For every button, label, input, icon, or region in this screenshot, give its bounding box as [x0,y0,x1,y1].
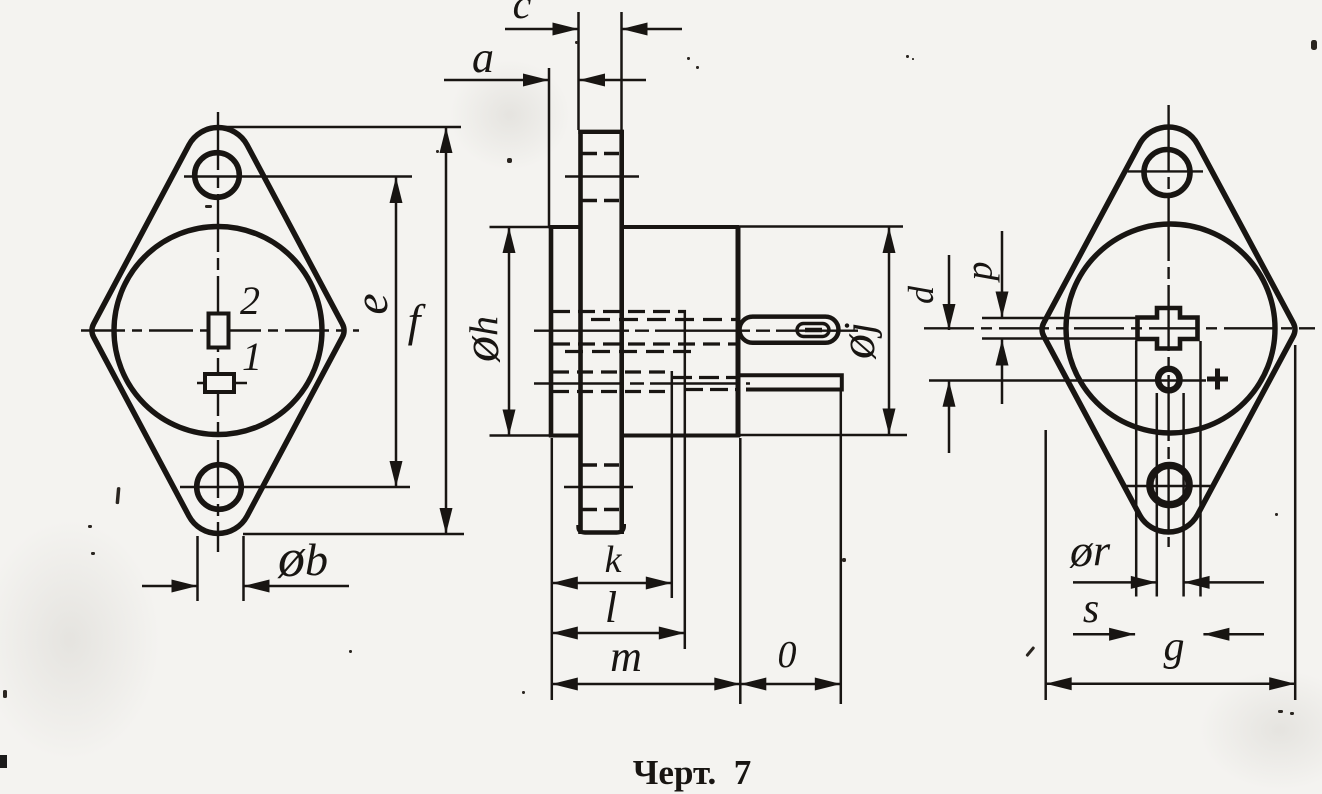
dimension m label [610,632,642,681]
caption [633,753,752,792]
svg-text:øb: øb [277,528,328,588]
side view can right edge [736,226,741,437]
plus mark [1207,369,1228,390]
dimension f bottom extension line [243,533,464,536]
svg-text:øj: øj [829,322,885,360]
dimension d line [943,255,956,453]
flange top hole hidden line upper [582,152,619,155]
left view top mounting hole [195,153,240,198]
upper lead inner bar [805,328,822,333]
side view header top edge [549,225,580,229]
dimension Oh line [503,227,516,436]
svg-text:øh: øh [453,316,510,363]
dimension Or left extension line [1156,393,1159,597]
pin 2 rectangle [209,314,229,348]
upper pin hidden line B [591,318,737,321]
right view bottom hole centerline [1125,485,1214,487]
side view header bottom edge [549,434,580,438]
upper pin axis centerline [534,330,858,332]
flange top hole centerline [565,175,639,177]
dimension c left extension line [577,12,580,130]
svg-text:Черт. 7: Черт. 7 [633,753,752,792]
svg-text:a: a [472,33,494,82]
svg-text:e: e [345,293,398,314]
dimension Ob label [277,528,328,588]
side view can bottom edge [622,434,740,438]
dimension s label [1083,586,1099,632]
dimension l label [605,583,617,632]
upper pin hidden line D [553,342,737,345]
lower lead outline [740,375,842,389]
svg-text:m: m [610,632,642,681]
svg-text:0: 0 [778,634,797,676]
dimension g line [1046,677,1296,690]
dimension l line [552,627,685,640]
dimensions k l m left extension line [551,438,554,700]
right view can circle [1066,224,1275,433]
lower pin hole hidden line F [553,370,671,373]
dimension Ob line [142,580,349,593]
dimension p top extension line [982,317,1138,320]
dimension a line [444,74,646,87]
side view flange top edge [578,130,624,134]
dimension Or line [1073,576,1264,589]
dimension s right extension line [1199,341,1202,597]
svg-text:c: c [513,0,532,28]
dimension l right extension line [684,310,687,649]
left view flange outline [92,128,344,534]
dimension f line [440,127,453,534]
lower pin hidden line H [685,388,736,391]
dimension Oh label [453,316,510,363]
dimension a left extension line [548,68,551,227]
svg-text:1: 1 [242,334,262,379]
dimension p bottom extension line [982,337,1138,340]
left view vertical centerline [217,112,219,552]
svg-text:2: 2 [240,278,260,323]
dimension m line [552,678,741,691]
svg-text:d: d [901,285,941,304]
right view top hole centerline [1128,170,1203,172]
side view top edge thin extension [490,226,550,229]
side view flange right edge [619,130,624,534]
flange bottom hole hidden line lower [582,508,619,511]
dimension e label [345,293,398,314]
dimension Oj line [883,227,896,435]
svg-text:k: k [605,539,623,581]
flange top hole hidden line lower [582,199,619,202]
right view vertical centerline [1167,105,1169,547]
dimension e bottom extension line [180,486,410,489]
dimension a label [472,33,494,82]
lower pin hidden line F2 [672,376,737,379]
svg-text:l: l [605,583,617,632]
dimension p line [996,231,1009,404]
dimension Or right extension line [1182,393,1185,597]
lower pin hole hidden line I [553,390,671,393]
upper lead outline [740,317,839,343]
dimension s left extension line [1135,341,1138,597]
svg-text:s: s [1083,586,1099,632]
dimension f top extension line [216,126,461,129]
dimension Ob right extension line [242,536,245,601]
flange bottom hole centerline [564,486,633,488]
left edge scan mark [0,755,7,768]
dimension k right extension line [671,371,674,598]
left view bottom mounting hole [197,465,242,510]
dimension g left extension line [1044,430,1047,700]
dimension k label [605,539,623,581]
side view can top edge [622,225,739,229]
dimension m right extension line [739,438,742,704]
dimension Or label [1069,525,1111,576]
dimension 0 right extension line [840,391,843,704]
side view bottom edge thin extension [490,434,550,437]
dimension p label [959,262,1001,284]
pin 1 label [242,334,262,379]
left view can circle [114,227,322,435]
dimension Ob left extension line [196,536,199,601]
side view top extension to Oj [739,225,903,228]
emitter pin circle [1158,369,1180,391]
dimension e line [390,177,403,487]
dimension c line [505,23,682,36]
side view header left edge [549,227,554,436]
dimension g label [1164,624,1185,670]
side view flange left edge [578,130,583,534]
right view flange outline [1042,127,1295,532]
svg-text:g: g [1164,624,1185,670]
upper pin hole hidden line A [553,310,686,313]
right view top mounting hole [1144,150,1190,196]
dimension Oj label [829,322,885,360]
side view flange bottom edge [579,524,624,533]
pin 2 label [240,278,260,323]
dimension 0 line [740,678,841,691]
svg-text:p: p [959,262,1001,284]
dimension k line [552,577,672,590]
upper pin hole hidden line E [565,350,692,353]
dimension g right extension line [1294,345,1297,700]
dimension c label [513,0,532,28]
upper lead flat inner outline [797,324,829,337]
dimension d lower extension line [929,379,1206,382]
pin 1 centerline [197,382,247,385]
lower pin axis centerline [534,382,750,384]
side view bottom extension to Oj [740,434,907,437]
svg-text:ør: ør [1069,525,1111,576]
dimension c right extension line [620,12,623,130]
dimension f label [408,295,427,346]
key boss outline [1138,308,1198,349]
left view horizontal centerline [81,329,359,331]
right view bottom mounting hole [1150,465,1189,504]
pin 1 rectangle [205,374,234,392]
dimension d label [901,285,941,304]
dimension e top extension line [184,175,412,178]
dimension s line [1073,628,1264,641]
right view horizontal centerline [924,327,1315,329]
flange bottom hole hidden line upper [582,463,619,466]
dimension 0 label [778,634,797,676]
